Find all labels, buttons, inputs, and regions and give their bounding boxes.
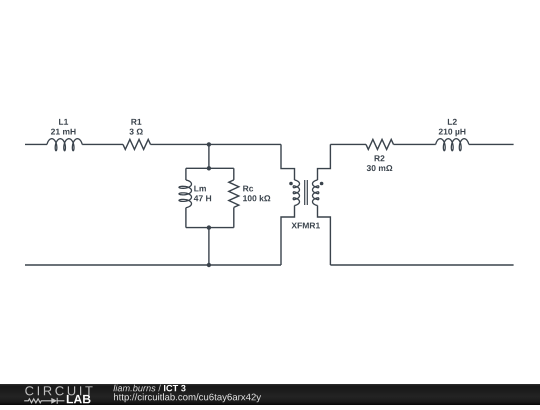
- wire parallel box bottom edge: [186, 227, 234, 229]
- value label 210 µH: [439, 129, 466, 137]
- wire R2 to L2: [394, 143, 436, 145]
- wire parallel box top edge: [186, 167, 234, 169]
- inductor Lm: [179, 180, 192, 208]
- CircuitLab logo diode triangle: [51, 398, 57, 404]
- node junction dot at parallel box bottom: [207, 225, 211, 229]
- footer url: [114, 393, 261, 402]
- transformer XFMR1 primary winding: [293, 180, 299, 206]
- wire branch vertical top: [208, 144, 210, 168]
- wire xfmr right-top jog: [318, 144, 331, 180]
- wire top-left lead: [25, 143, 47, 145]
- label Lm: [194, 186, 206, 192]
- node junction dot at parallel box top: [207, 166, 211, 170]
- footer title liam.burns: [113, 385, 155, 392]
- wire bottom-left run: [25, 264, 281, 266]
- wire branch vertical bottom: [208, 228, 210, 265]
- transformer XFMR1 secondary winding: [313, 180, 319, 206]
- CircuitLab logo wordmark CIRCUIT: [25, 386, 92, 395]
- wire top-right lead: [469, 143, 514, 145]
- CircuitLab logo wordmark LAB: [67, 395, 91, 403]
- wire R1 to transformer left corner: [151, 143, 282, 145]
- inductor L1: [47, 139, 82, 151]
- resistor R1: [123, 139, 151, 149]
- wire xfmr right-bottom jog: [318, 206, 331, 266]
- node junction dot on bottom wire: [207, 263, 211, 267]
- label R1: [131, 119, 141, 125]
- value label 100 kΩ: [243, 195, 270, 201]
- value label 30 mΩ: [367, 165, 393, 171]
- footer bar: [0, 384, 540, 405]
- value label 3 Ω: [129, 129, 142, 135]
- wire Rc bottom stub: [233, 207, 235, 227]
- inductor L2: [436, 139, 469, 151]
- wire xfmr-right to R2: [330, 143, 366, 145]
- wire Lm bottom stub: [185, 208, 187, 228]
- footer title slash: [158, 385, 161, 392]
- label XFMR1: [292, 223, 321, 229]
- wire xfmr left-top jog: [281, 144, 295, 180]
- wire Rc top stub: [233, 168, 235, 180]
- resistor Rc: [229, 180, 239, 208]
- footer title ICT 3: [164, 385, 186, 392]
- wire bottom-right run: [330, 264, 513, 266]
- node junction dot on main wire: [207, 142, 211, 146]
- CircuitLab logo resistor-diode squiggle: [24, 398, 64, 404]
- label Rc: [243, 186, 253, 192]
- transformer XFMR1 secondary phase dot: [320, 182, 324, 186]
- label L1: [59, 119, 68, 125]
- label L2: [448, 119, 457, 125]
- transformer XFMR1 core: [305, 180, 308, 205]
- resistor R2: [366, 139, 394, 149]
- transformer XFMR1 primary phase dot: [289, 182, 293, 186]
- label R2: [375, 155, 385, 161]
- wire L1 to R1: [82, 143, 123, 145]
- value label 21 mH: [51, 129, 76, 135]
- wire xfmr left-bottom jog: [281, 206, 295, 266]
- wire Lm top stub: [185, 168, 187, 180]
- value label 47 H: [194, 195, 211, 201]
